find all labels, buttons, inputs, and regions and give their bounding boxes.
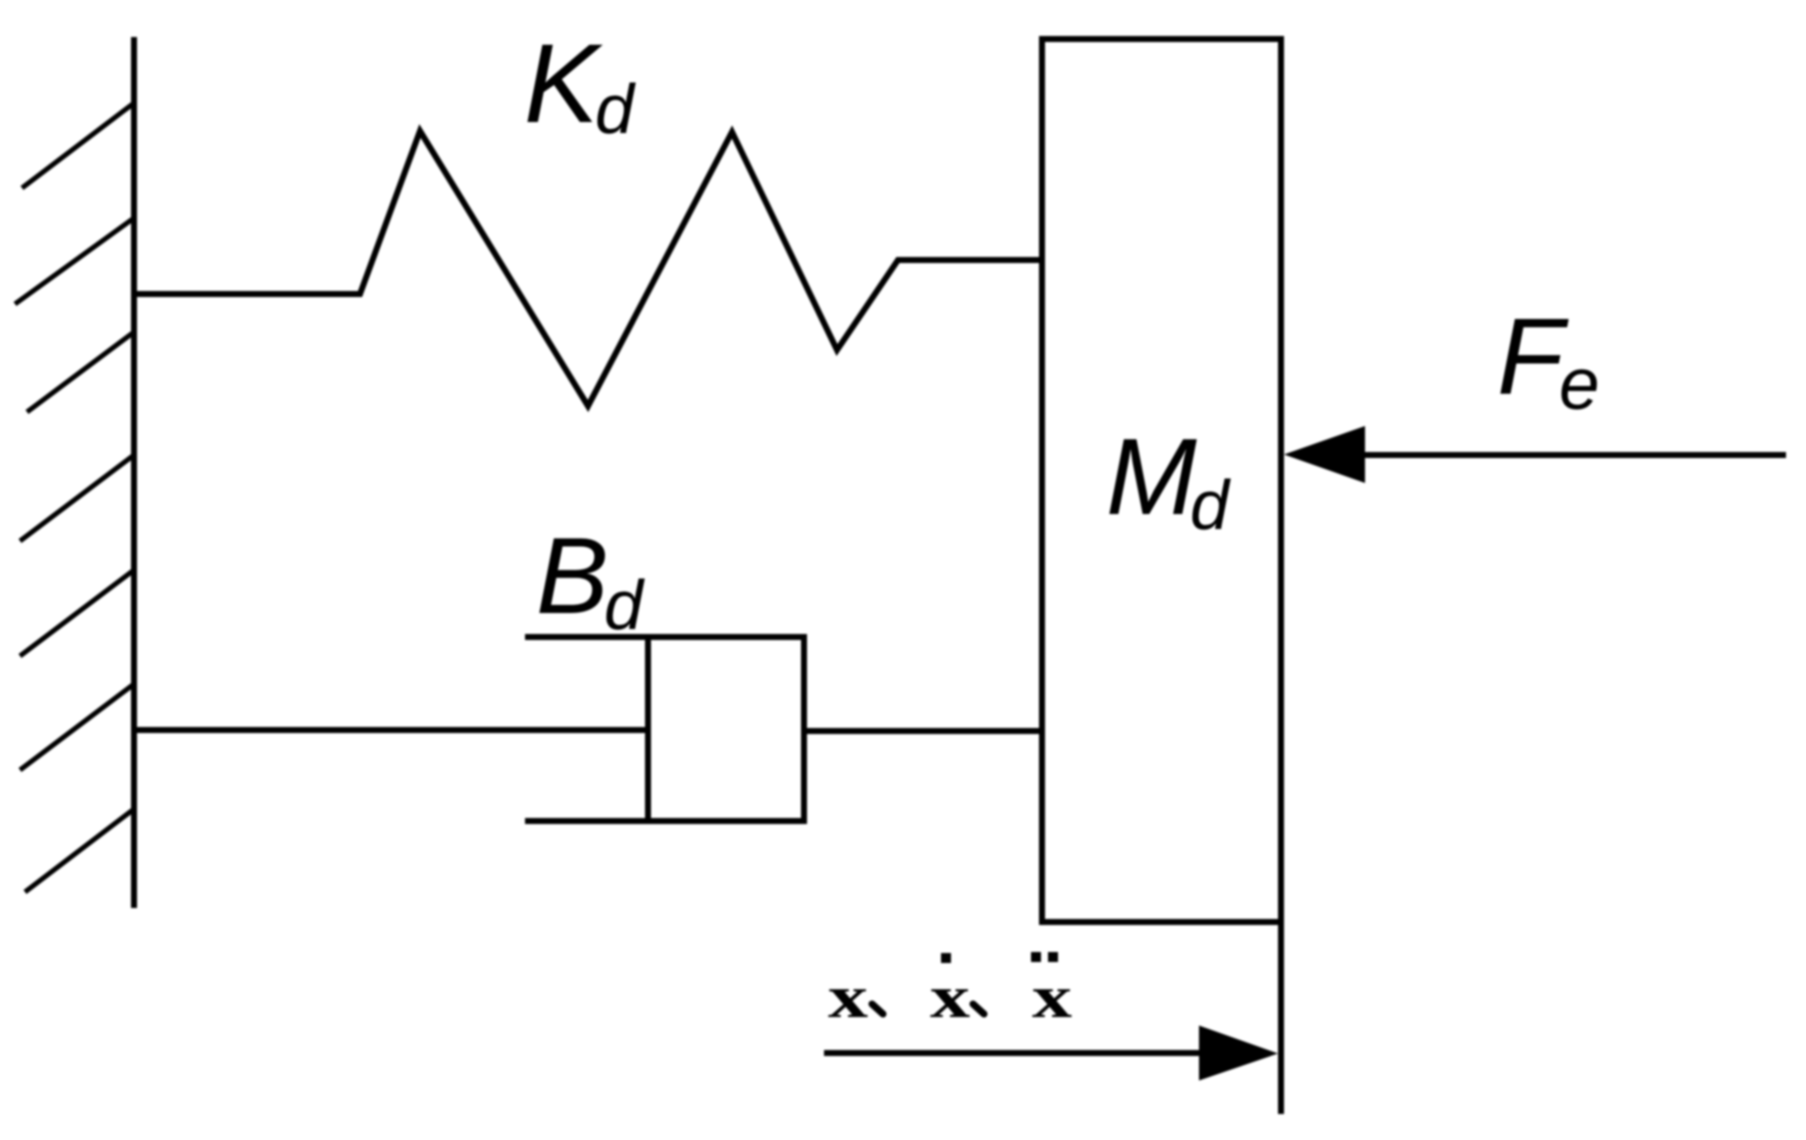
damper cylinder bottom	[525, 818, 806, 824]
damper cylinder right wall	[801, 634, 807, 824]
svg-text:x: x	[930, 964, 970, 1030]
svg-text:d: d	[595, 70, 636, 148]
label Md	[1106, 416, 1231, 544]
label Fe	[1497, 296, 1600, 425]
label Kd	[524, 21, 636, 148]
mass Md rectangle	[1042, 39, 1281, 922]
svg-text:d: d	[1190, 466, 1231, 544]
damper rod left	[134, 727, 648, 733]
svg-text:d: d	[604, 566, 645, 644]
svg-text:B: B	[536, 515, 609, 637]
damper piston	[645, 634, 651, 824]
motion arrow x head	[1199, 1026, 1278, 1081]
force arrow Fe line	[1360, 452, 1786, 458]
wall hatch 7	[25, 809, 134, 892]
wall hatch 2	[15, 218, 134, 304]
svg-text:e: e	[1559, 344, 1600, 425]
force arrow Fe head	[1284, 426, 1365, 483]
wall	[131, 37, 137, 908]
mass right edge extension	[1278, 922, 1284, 1114]
svg-text:K: K	[524, 21, 603, 146]
label x dot xddot	[828, 952, 1072, 1031]
wall hatch 5	[20, 570, 134, 656]
wall hatch 3	[27, 332, 134, 412]
label Bd	[536, 515, 645, 644]
svg-text:x: x	[828, 964, 868, 1030]
svg-text:x: x	[1032, 964, 1072, 1030]
damper rod right	[804, 728, 1041, 734]
svg-text:M: M	[1106, 416, 1197, 538]
spring Kd	[134, 131, 1041, 406]
motion arrow x line	[824, 1050, 1220, 1056]
wall hatch 4	[20, 455, 134, 541]
wall hatch 6	[20, 684, 134, 770]
wall hatch 1	[22, 103, 134, 188]
damper cylinder top	[525, 634, 806, 640]
